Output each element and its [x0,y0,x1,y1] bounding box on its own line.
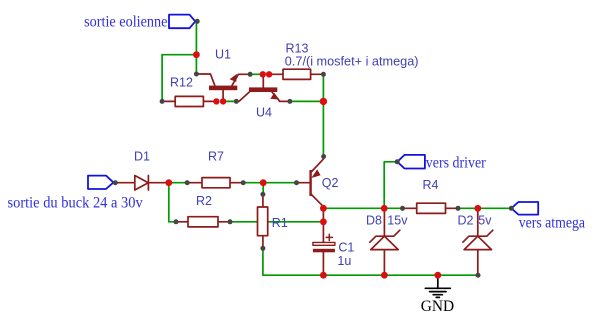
resistor R2 [176,217,230,227]
wire: R4 to D2 node [458,207,478,209]
junction: U4-R13 double dots [260,71,266,77]
pin end: driver tip [395,159,400,164]
port vers atmega [511,202,538,215]
svg-text:D2: D2 [458,213,474,227]
svg-text:15v: 15v [387,213,408,227]
svg-text:sortie du buck 24 a 30v: sortie du buck 24 a 30v [8,194,143,211]
pin end: R7 left [185,180,190,185]
port vers driver [397,155,425,169]
pin end: Q2 emitter [321,154,326,159]
pin end: R13 right [321,72,326,77]
wire: D1 node down to R2 [169,183,176,222]
svg-text:D8: D8 [366,213,382,227]
pin end: eolienne tip [195,19,200,24]
pin end: Q2 base [294,180,299,185]
svg-text:D1: D1 [134,149,150,163]
pin end: atmega tip [509,206,514,211]
pin end: D2 bottom [476,273,481,278]
wire: D1 to R7 [169,182,187,184]
transistor U1 [196,74,250,102]
wire: top horizontal to left column [162,54,196,56]
wire: sortie eolienne drop [195,21,197,54]
junction: GND node [434,272,441,279]
junction: R1 top node [260,179,267,186]
pin end: R1 bottom [260,246,265,251]
svg-text:0.7/(i mosfet+ i atmega): 0.7/(i mosfet+ i atmega) [285,54,419,68]
wire: R2 to C1 top (passes behind R1) [230,221,323,223]
transistor U4 [236,74,290,101]
pin end: R12 left [160,99,165,104]
svg-text:U1: U1 [215,48,231,62]
zener diode D2 [463,208,493,275]
wire: U4 emitter to R13 column [290,100,324,102]
svg-text:R7: R7 [208,149,224,163]
pin end: R1 top [260,192,265,197]
transistor Q2 [297,157,324,209]
junction: Q2 collector node [320,205,327,212]
svg-text:Q2: Q2 [322,176,339,190]
junction: driver/D8 node [381,205,388,212]
zener diode D8 [370,208,400,275]
ground symbol [425,275,450,297]
svg-text:U4: U4 [256,105,272,119]
junction: C1 bottom node [320,272,327,279]
wire: R1 bottom to ground rail [263,248,478,275]
svg-text:1u: 1u [337,254,351,268]
pin end: R4 left [400,206,405,211]
svg-text:5v: 5v [478,213,492,227]
svg-text:R12: R12 [170,75,193,89]
diode D1 [115,176,169,191]
wire: D2 node to vers atmega [478,207,512,209]
wire: R13 right column down to Q2 emitter [322,74,324,156]
svg-text:GND: GND [421,298,454,315]
resistor R1 (vertical) [258,194,268,248]
pin end: U4 left [234,99,239,104]
wire: U1 emitter to U4 center [250,73,263,75]
wire: left column down to R12 [161,55,163,102]
junction: C1 top node [320,218,327,225]
pin end: R7 right [241,180,246,185]
svg-text:R1: R1 [272,216,288,230]
pin end: R4 right [456,206,461,211]
pin end: U1 base [194,72,199,77]
svg-text:vers atmega: vers atmega [519,214,585,231]
wire: main rail stub down to R1 [262,183,264,195]
wire: R7 to Q2 base [243,182,296,184]
svg-text:C1: C1 [338,240,354,254]
svg-text:R4: R4 [423,178,439,192]
svg-text:sortie eolienne: sortie eolienne [84,14,167,31]
pin end: R2 right [228,219,233,224]
wire: vers driver drop [384,162,397,209]
svg-text:vers driver: vers driver [426,154,487,171]
port sortie du buck [88,176,113,189]
junction: R13 column node [320,98,327,105]
port sortie eolienne [169,15,195,29]
resistor R12 [162,96,216,106]
resistor R4 [403,203,459,213]
pin end: buck tip [113,180,118,185]
junction: D2 top node [474,205,481,212]
capacitor C1 [313,208,335,275]
wire: Q2 collector rail to R4 [323,207,402,209]
pin end: U1 emitter [248,72,253,77]
svg-text:R13: R13 [286,41,309,55]
wire: U1 collector row to U4 [223,100,236,102]
pin end: R2 left [174,219,179,224]
wire: eolienne node down to U1 base [195,55,197,74]
svg-text:R2: R2 [196,194,212,208]
pin end: U4 right [287,99,292,104]
junction: D8 bottom node [381,272,388,279]
junction: eolienne node [193,51,200,58]
resistor R13 [269,69,323,79]
junction: R12-U1 double dots [213,98,219,104]
resistor R7 [187,178,243,188]
junction: D1 node [165,179,172,186]
